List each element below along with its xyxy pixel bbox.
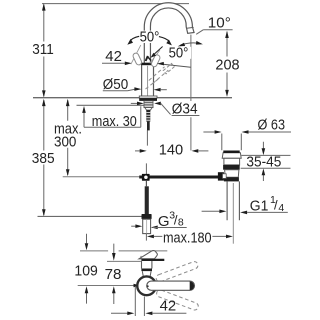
lever pivot dark wedges bbox=[145, 56, 149, 62]
svg-text:4: 4 bbox=[278, 202, 284, 214]
svg-text:385: 385 bbox=[32, 150, 55, 167]
svg-text:140: 140 bbox=[159, 142, 183, 159]
dimension 78 bbox=[105, 244, 122, 304]
dimension 385 (depth below deck) bbox=[32, 99, 55, 216]
svg-text:8: 8 bbox=[178, 216, 184, 228]
G3/8 connector body bbox=[143, 219, 151, 233]
dimension 42 (plan) bbox=[111, 286, 186, 316]
wire deck bottom line (max 30 thickness) bbox=[77, 104, 145, 106]
plan dashed handle up position bbox=[155, 261, 199, 283]
svg-text:50°: 50° bbox=[140, 29, 160, 46]
dimension 50° lever swing bbox=[127, 29, 172, 46]
faucet spout gooseneck bbox=[144, 3, 194, 64]
waste upper body bbox=[224, 158, 240, 165]
waste dark ring 1 bbox=[223, 165, 240, 170]
waste flange lip bbox=[222, 153, 241, 159]
svg-text:max. 30: max. 30 bbox=[92, 113, 137, 130]
svg-text:max.180: max.180 bbox=[163, 229, 212, 246]
svg-text:50°: 50° bbox=[169, 45, 189, 62]
svg-text:10°: 10° bbox=[208, 14, 231, 31]
lever tilted left position bbox=[131, 45, 141, 64]
wire spout axis extension line bbox=[190, 35, 192, 151]
dimension max.180 (waste rod adjustment) bbox=[146, 229, 233, 246]
plan body bbox=[142, 261, 152, 269]
svg-text:G: G bbox=[158, 213, 170, 230]
svg-text:311: 311 bbox=[32, 41, 54, 58]
faucet base flange bbox=[139, 96, 157, 98]
wire plan ref line spout tip bbox=[80, 250, 167, 252]
wire bottom reference line (supply end) bbox=[38, 215, 143, 217]
svg-text:300: 300 bbox=[54, 133, 76, 150]
svg-text:Ø34: Ø34 bbox=[172, 101, 198, 118]
waste dark ring 2 bbox=[224, 177, 239, 181]
dimension 42 (lever offset, top view arrow) bbox=[102, 48, 132, 65]
svg-text:109: 109 bbox=[74, 262, 97, 279]
faucet shank bbox=[144, 101, 153, 108]
svg-text:42: 42 bbox=[105, 48, 122, 65]
svg-text:/: / bbox=[274, 198, 278, 213]
dimension Ø63 (waste flange diameter) bbox=[203, 117, 291, 151]
wire faucet axis extension line bbox=[146, 130, 147, 174]
svg-text:35-45: 35-45 bbox=[246, 154, 281, 170]
faucet threaded stud bbox=[146, 110, 150, 122]
svg-text:42: 42 bbox=[160, 298, 177, 315]
dimension 35-45 (waste mounting range) bbox=[241, 142, 291, 181]
svg-text:208: 208 bbox=[215, 56, 239, 73]
svg-text:Ø 63: Ø 63 bbox=[258, 117, 286, 134]
plan body top bold edge bbox=[141, 259, 164, 261]
wire deck line (mounting surface) bbox=[33, 97, 232, 99]
dimension max.300 (pull rod depth) bbox=[54, 99, 82, 177]
dimension Ø50 (body diameter) bbox=[103, 76, 167, 93]
plan handle lever bbox=[147, 281, 195, 290]
dimension G3/8 (supply connection) bbox=[131, 209, 187, 230]
wire pop-up rod reference line bbox=[63, 176, 140, 178]
dimension G1 1/4 (waste thread) bbox=[202, 194, 288, 214]
waste rod connector block bbox=[218, 172, 224, 180]
dimension 50° spout swivel bbox=[151, 41, 203, 67]
dimension 109 bbox=[74, 234, 97, 304]
supply hose bbox=[145, 181, 147, 187]
waste taper bbox=[225, 170, 239, 178]
plan handle hub bbox=[137, 276, 156, 295]
dimension 10° (spout outlet angle) bbox=[196, 14, 232, 34]
dimension 208 (spout outlet height) bbox=[215, 31, 239, 97]
dimension 140 (spout reach) bbox=[135, 142, 208, 159]
wire top extension line (spout top level) bbox=[42, 3, 189, 5]
pop-up rod clamp bbox=[142, 174, 150, 181]
hose nut bbox=[142, 214, 152, 219]
plan spout beak bbox=[139, 251, 157, 259]
faucet body bbox=[142, 63, 154, 96]
svg-text:G1: G1 bbox=[250, 197, 269, 214]
dimension Ø34 (shank diameter) bbox=[131, 101, 200, 118]
faucet aerator joint line bbox=[187, 26, 194, 29]
lever tilted right position bbox=[150, 50, 160, 63]
pop-up rod horizontal bbox=[139, 176, 218, 179]
dashed spout swivel positions bbox=[146, 64, 175, 90]
svg-text:78: 78 bbox=[105, 266, 122, 283]
dimension 311 (height above deck) bbox=[32, 3, 54, 97]
dimension max.30 (deck thickness label) bbox=[82, 106, 141, 130]
wire plan ref line body top bbox=[107, 260, 141, 262]
waste tailpipe bbox=[227, 181, 239, 220]
plan dashed handle down position bbox=[156, 289, 200, 311]
wire plan ref line handle axis bbox=[78, 285, 134, 287]
